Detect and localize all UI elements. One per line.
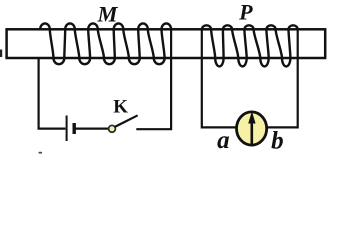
wire left-circuit left side and bottom to battery	[39, 58, 66, 129]
svg-text:P: P	[238, 0, 253, 24]
svg-text:K: K	[113, 96, 128, 117]
galvanometer needle arrow	[248, 111, 255, 146]
coil P	[202, 25, 298, 66]
coil M	[40, 23, 171, 64]
battery B1	[67, 116, 75, 142]
wire battery to switch	[76, 128, 109, 130]
iron core bar	[7, 29, 326, 58]
node b label	[271, 128, 284, 155]
label M	[96, 1, 118, 26]
label K	[113, 96, 128, 117]
svg-text:M: M	[96, 1, 118, 26]
wire switch to right side of left circuit	[136, 29, 171, 129]
wire galvanometer to right side of right circuit	[267, 29, 297, 127]
switch K lever	[115, 116, 137, 127]
label P	[238, 0, 253, 24]
svg-text:a: a	[217, 127, 230, 154]
stray mark at left image edge	[0, 50, 2, 58]
wire right-circuit left side down to galvanometer	[202, 29, 236, 127]
switch K pivot	[109, 125, 116, 132]
stray dash mark bottom left	[39, 152, 43, 154]
galvanometer G body	[237, 112, 267, 145]
node a label	[217, 127, 230, 154]
svg-text:b: b	[271, 128, 284, 155]
